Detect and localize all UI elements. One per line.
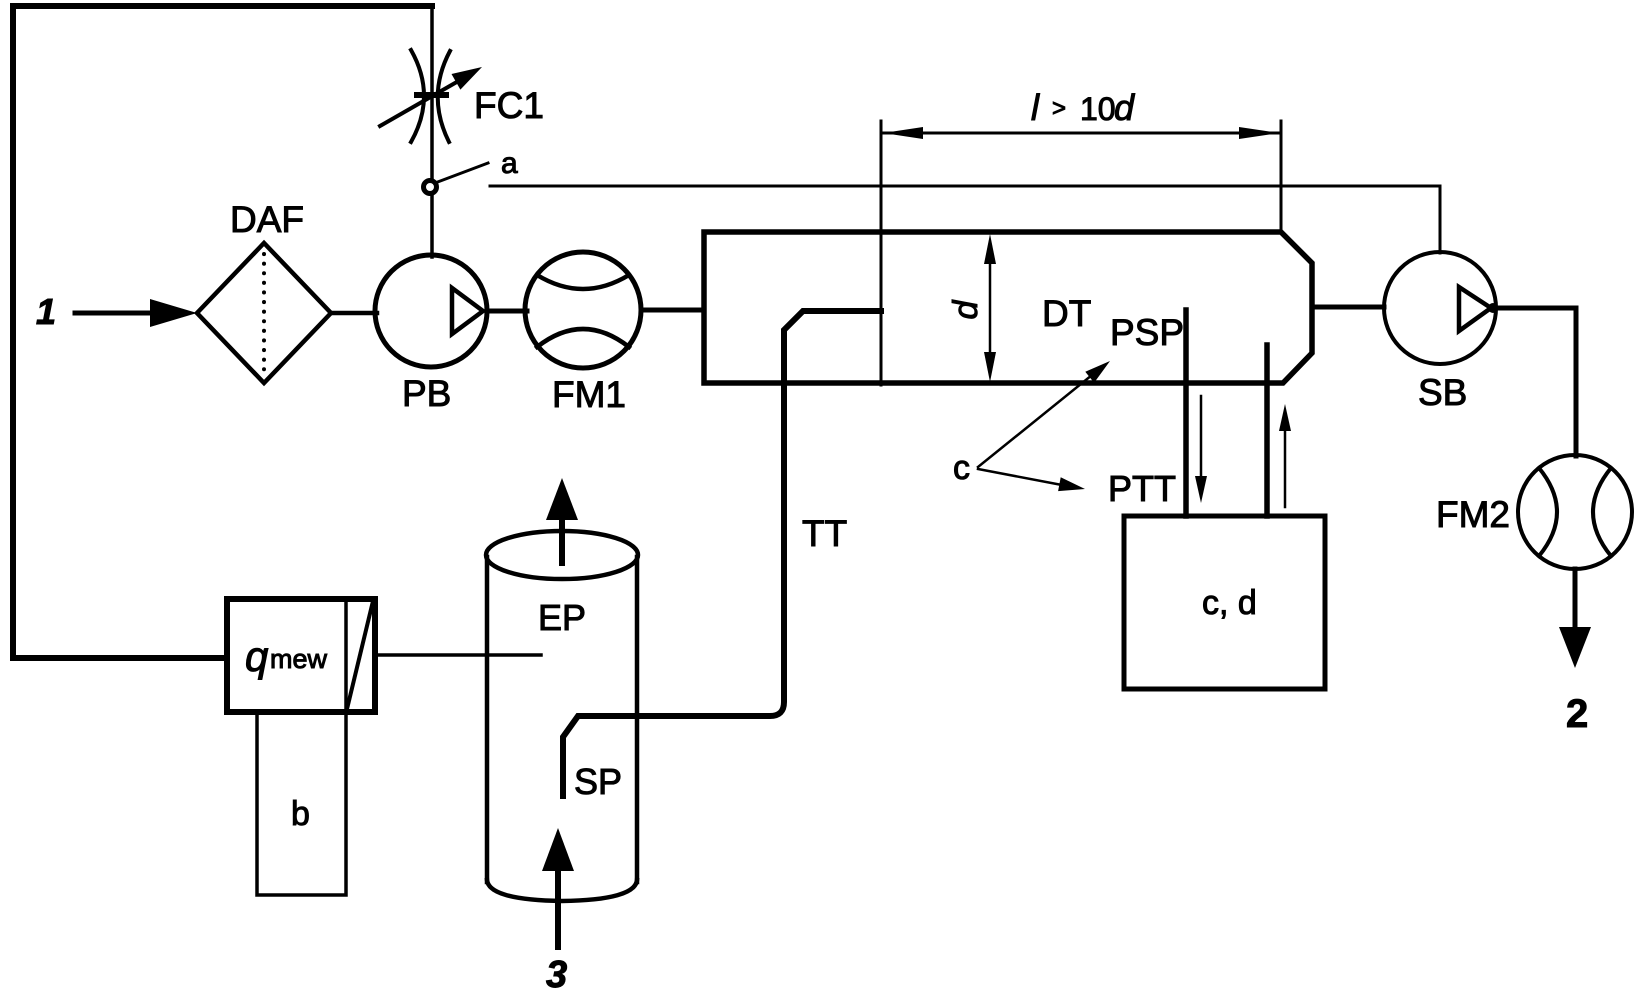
svg-text:a: a — [501, 147, 518, 180]
svg-text:c, d: c, d — [1202, 584, 1257, 622]
svg-text:PSP: PSP — [1110, 312, 1184, 353]
node a — [424, 181, 437, 194]
svg-text:d: d — [1114, 87, 1135, 128]
svg-text:b: b — [291, 795, 310, 833]
wire q mew to EP — [375, 653, 541, 657]
probe second tube — [1264, 345, 1270, 516]
dimension d (tunnel diameter) — [984, 234, 996, 382]
svg-text:3: 3 — [546, 954, 567, 988]
arrow exhaust up out of EP — [546, 478, 578, 563]
wire PB to FM1 — [487, 309, 527, 314]
svg-text:DT: DT — [1042, 293, 1091, 334]
valve FC1 — [380, 50, 482, 142]
box b (signal converter) — [257, 712, 346, 895]
wire FM1 to dilution tunnel — [641, 308, 704, 313]
svg-text:d: d — [947, 299, 985, 319]
wire control line a to SB — [490, 186, 1440, 253]
svg-text:FC1: FC1 — [474, 85, 544, 126]
svg-text:EP: EP — [538, 597, 586, 638]
svg-text:l: l — [1031, 87, 1040, 128]
label l > 10 d — [1031, 87, 1135, 128]
svg-text:TT: TT — [802, 513, 847, 554]
wire FC1 branch vertical — [430, 6, 434, 257]
flow meter FM2 — [1518, 455, 1632, 569]
arrow inlet 1 — [75, 299, 197, 327]
extension line / mixing section boundary — [880, 121, 883, 385]
leader c to PSP — [978, 361, 1110, 467]
arrow inlet 3 into EP — [542, 828, 574, 947]
probe PSP tube — [1183, 310, 1189, 516]
flow meter FM1 — [525, 252, 641, 368]
svg-text:SB: SB — [1418, 372, 1467, 413]
svg-text:FM1: FM1 — [552, 374, 626, 415]
svg-text:q: q — [245, 633, 269, 680]
wire DT to SB — [1314, 305, 1384, 310]
dimension l > 10 d — [883, 127, 1279, 139]
svg-text:>: > — [1052, 95, 1066, 122]
arrow flow down in PSP — [1195, 396, 1207, 503]
svg-text:PTT: PTT — [1108, 468, 1176, 509]
arrow flow up in second tube — [1279, 404, 1291, 507]
svg-text:DAF: DAF — [230, 199, 304, 240]
svg-text:SP: SP — [574, 761, 622, 802]
arrow outlet 2 — [1559, 569, 1591, 668]
wire DAF to PB — [331, 311, 377, 316]
flow controller q mew — [227, 599, 375, 712]
svg-text:10: 10 — [1080, 91, 1116, 127]
filter DAF — [197, 243, 331, 383]
transfer tube TT with sampling probe SP — [563, 311, 881, 796]
blower SB — [1384, 252, 1498, 364]
leader c to PTT — [978, 469, 1085, 491]
wire dilution air return loop (top border) — [13, 6, 432, 658]
dilution tunnel DT body — [704, 232, 1312, 383]
label q mew — [245, 633, 328, 680]
blower PB — [375, 255, 487, 367]
svg-text:1: 1 — [36, 291, 56, 332]
svg-text:FM2: FM2 — [1436, 494, 1510, 535]
leader to node a — [435, 163, 488, 183]
wire SB to FM2 — [1496, 308, 1576, 456]
box c,d (particulate sampling system) — [1124, 516, 1325, 689]
svg-text:c: c — [953, 449, 970, 487]
exhaust pipe EP cylinder — [486, 531, 638, 901]
svg-text:2: 2 — [1566, 692, 1588, 736]
svg-text:PB: PB — [402, 373, 451, 414]
extension line right — [1280, 121, 1283, 232]
svg-text:mew: mew — [270, 644, 328, 674]
